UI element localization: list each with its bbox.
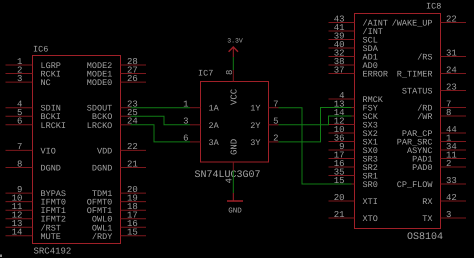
svg-text:1Y: 1Y — [250, 104, 260, 114]
svg-text:24: 24 — [446, 65, 457, 75]
svg-text:5: 5 — [273, 117, 278, 127]
svg-text:2Y: 2Y — [250, 121, 260, 131]
svg-text:SRC4192: SRC4192 — [34, 247, 72, 257]
svg-text:MODE0: MODE0 — [87, 78, 113, 88]
svg-text:VCC: VCC — [230, 88, 240, 105]
svg-text:20: 20 — [334, 193, 345, 203]
svg-text:22: 22 — [446, 14, 457, 24]
svg-text:7: 7 — [17, 142, 22, 152]
svg-text:XTI: XTI — [363, 197, 378, 207]
svg-text:2A: 2A — [209, 121, 220, 131]
svg-text:LRCKO: LRCKO — [87, 121, 113, 131]
svg-text:IC6: IC6 — [33, 45, 48, 55]
svg-text:R_TIMER: R_TIMER — [397, 70, 433, 80]
svg-text:VIO: VIO — [41, 146, 56, 156]
svg-text:MUTE: MUTE — [41, 232, 61, 242]
svg-text:15: 15 — [127, 228, 138, 238]
svg-text:STATUS: STATUS — [402, 87, 433, 97]
svg-text:3.3V: 3.3V — [227, 38, 243, 45]
svg-text:/RS: /RS — [417, 53, 432, 63]
svg-text:GND: GND — [228, 207, 242, 216]
svg-text:37: 37 — [334, 65, 345, 75]
svg-text:26: 26 — [127, 74, 138, 84]
svg-text:2: 2 — [446, 159, 451, 169]
svg-text:DGND: DGND — [41, 164, 61, 174]
svg-text:/WAKE_UP: /WAKE_UP — [392, 19, 433, 29]
svg-text:21: 21 — [334, 210, 345, 220]
svg-text:OS8104: OS8104 — [407, 232, 443, 243]
svg-text:PAD0: PAD0 — [412, 163, 432, 173]
svg-text:8: 8 — [17, 159, 22, 169]
svg-text:LRCKI: LRCKI — [41, 121, 67, 131]
svg-text:NC: NC — [41, 78, 51, 88]
svg-text:/RDY: /RDY — [92, 232, 112, 242]
svg-text:VDD: VDD — [97, 146, 112, 156]
svg-text:8: 8 — [446, 108, 451, 118]
svg-text:3Y: 3Y — [250, 138, 260, 148]
svg-text:21: 21 — [127, 159, 138, 169]
svg-text:XTO: XTO — [363, 214, 378, 224]
svg-text:33: 33 — [446, 176, 457, 186]
svg-text:6: 6 — [17, 117, 22, 127]
svg-text:42: 42 — [446, 193, 457, 203]
svg-text:CP_FLOW: CP_FLOW — [397, 180, 434, 190]
svg-text:23: 23 — [446, 82, 457, 92]
svg-text:/WR: /WR — [417, 112, 432, 122]
svg-text:3A: 3A — [209, 138, 220, 148]
svg-text:1A: 1A — [209, 104, 220, 114]
svg-text:ERROR: ERROR — [363, 70, 389, 80]
svg-text:IC7: IC7 — [198, 69, 213, 79]
svg-text:31: 31 — [446, 48, 457, 58]
svg-text:TX: TX — [422, 214, 432, 224]
svg-text:3: 3 — [17, 74, 22, 84]
svg-text:14: 14 — [12, 228, 23, 238]
svg-text:GND: GND — [230, 139, 240, 155]
svg-text:DGND: DGND — [92, 164, 112, 174]
svg-text:IC8: IC8 — [426, 2, 441, 12]
svg-text:22: 22 — [127, 142, 138, 152]
svg-text:RX: RX — [422, 197, 432, 207]
svg-text:3: 3 — [446, 210, 451, 220]
svg-text:2: 2 — [273, 134, 278, 144]
svg-text:SR0: SR0 — [363, 180, 378, 190]
svg-text:7: 7 — [273, 100, 278, 110]
